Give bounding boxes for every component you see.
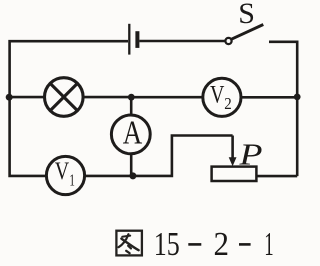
wire center node to voltmeter V2: [131, 96, 203, 99]
voltmeter V2 circle: [203, 78, 241, 116]
svg-text:S: S: [238, 0, 255, 30]
svg-text:A: A: [123, 115, 143, 152]
wire V2 to right side: [241, 96, 297, 99]
svg-text:15: 15: [154, 226, 180, 263]
rheostat wiper arrow shaft: [231, 136, 234, 160]
wire switch to top-right corner and down right side: [269, 42, 297, 176]
wire middle-left to lamp: [10, 96, 45, 99]
voltmeter V1 circle: [46, 156, 84, 194]
caption hanzi tu (figure) drawn as strokes: [116, 231, 141, 256]
caption figure number 15-2-1: [154, 226, 274, 263]
wire rheostat to bottom-right corner: [256, 175, 297, 178]
wire V1 to bottom node and corner up: [85, 136, 233, 176]
node at bottom wire / ammeter junction: [129, 172, 136, 179]
svg-text:2: 2: [224, 94, 232, 113]
svg-text:1: 1: [264, 226, 273, 263]
svg-text:P: P: [238, 137, 262, 172]
svg-text:2: 2: [214, 226, 230, 263]
svg-text:1: 1: [69, 170, 75, 189]
rheostat wiper arrowhead: [229, 157, 237, 166]
node at left wire / lamp branch: [6, 94, 13, 101]
node at right wire / V2 branch: [294, 94, 301, 101]
wire top-left from battery to left corner, down left side, to V1: [10, 41, 128, 176]
lamp (circle with X): [45, 78, 84, 117]
rheostat P body: [212, 167, 257, 181]
wire lamp to center node: [83, 96, 131, 99]
ammeter A circle: [111, 115, 150, 154]
ammeter A bottom lead: [130, 154, 133, 176]
ammeter A top lead: [130, 97, 133, 115]
svg-text:V: V: [55, 158, 69, 185]
svg-text:V: V: [210, 82, 224, 109]
node at lamp/V2/ammeter junction: [128, 94, 135, 101]
battery (cell): [129, 24, 137, 55]
switch S pivot: [225, 38, 231, 44]
wire battery to switch: [139, 40, 225, 43]
switch S lever (open): [232, 25, 264, 40]
